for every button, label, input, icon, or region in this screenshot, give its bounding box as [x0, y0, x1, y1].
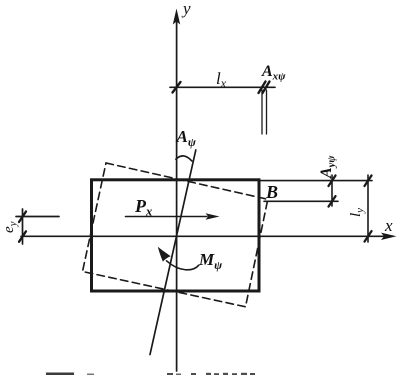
y-axis arrowhead: [173, 9, 180, 25]
A_xpsi extension line 1: [261, 90, 263, 134]
svg-text:x: x: [384, 216, 393, 235]
rotated footing rectangle (dashed): [83, 163, 268, 307]
tick at A_xpsi right: [263, 82, 270, 94]
svg-text:Mψ: Mψ: [198, 250, 223, 272]
A_xpsi extension line 2: [266, 90, 268, 134]
svg-text:ly: ly: [348, 208, 366, 217]
svg-text:Axψ: Axψ: [261, 63, 286, 83]
e_y dimension line: [22, 209, 24, 244]
moment arrowhead: [158, 247, 171, 262]
svg-text:Ayψ: Ayψ: [318, 155, 338, 179]
footing outline rectangle (solid): [92, 180, 260, 291]
svg-text:Px: Px: [134, 196, 152, 219]
x-axis arrowhead: [381, 233, 397, 240]
svg-text:y: y: [181, 0, 191, 18]
y-axis: [176, 22, 178, 371]
svg-text:B: B: [265, 182, 278, 202]
caption fragment (clipped text at bottom): [46, 373, 255, 375]
moment M_psi curved arrow: [167, 261, 199, 270]
e_y tick lower: [19, 231, 26, 242]
x-axis: [21, 235, 384, 237]
e_y upper extension line (P_x action line): [16, 216, 59, 218]
l_x tick at y-axis: [173, 82, 181, 93]
angle arc between y-axis and psi axis: [176, 156, 192, 161]
l_y tick top: [365, 176, 372, 187]
svg-text:ey: ey: [1, 221, 19, 233]
tick at A_xpsi left: [259, 82, 266, 94]
l_x dimension line: [170, 86, 275, 88]
A_ypsi dimension line: [331, 175, 333, 206]
svg-text:lx: lx: [216, 69, 227, 90]
svg-text:Aψ: Aψ: [176, 127, 197, 149]
A_ypsi tick bottom: [329, 196, 336, 207]
psi axis line (A_psi): [150, 150, 196, 355]
extension line below B: [264, 200, 338, 202]
l_y dimension line: [367, 175, 369, 242]
force P_x arrow: [126, 216, 208, 218]
e_y tick upper: [19, 212, 26, 223]
top edge extension line to right dimensions: [261, 180, 372, 182]
l_y tick bottom: [365, 231, 372, 242]
A_ypsi tick top: [329, 176, 336, 187]
